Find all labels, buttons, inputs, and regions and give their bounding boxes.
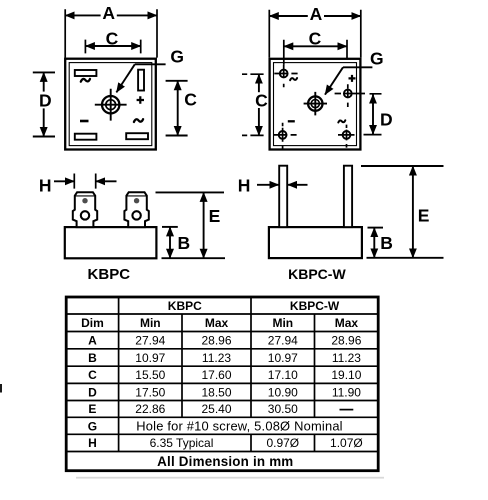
svg-text:A: A — [102, 3, 115, 23]
dimension C KBPC-W top — [284, 29, 347, 65]
dimension D KBPC left — [33, 72, 55, 136]
KBPC-W wire lead 2 — [344, 166, 352, 227]
svg-text:D: D — [380, 109, 393, 129]
table frame — [66, 297, 378, 471]
table header row 1 — [168, 299, 340, 313]
svg-text:B: B — [88, 351, 97, 365]
svg-text:H: H — [238, 176, 251, 196]
svg-text:17.60: 17.60 — [201, 368, 231, 382]
dimension E KBPC — [156, 192, 226, 258]
svg-text:27.94: 27.94 — [268, 334, 298, 348]
table row G — [88, 419, 343, 434]
KBPC pad plus top-right — [137, 70, 144, 104]
svg-text:11.90: 11.90 — [332, 385, 361, 399]
svg-text:C: C — [88, 368, 97, 382]
label KBPC — [88, 266, 131, 283]
dimension E KBPC-W — [361, 166, 444, 258]
KBPC-W terminal AC bottom-right — [338, 120, 382, 147]
svg-text:A: A — [88, 334, 97, 348]
svg-text:30.50: 30.50 — [268, 402, 298, 416]
svg-text:11.23: 11.23 — [202, 351, 231, 365]
svg-text:D: D — [39, 90, 52, 110]
svg-text:G: G — [88, 419, 97, 433]
KBPC-W leader G — [325, 48, 384, 94]
left edge artifact — [0, 384, 2, 393]
svg-text:Hole for #10 screw, 5.08Ø Nomi: Hole for #10 screw, 5.08Ø Nominal — [136, 419, 343, 434]
svg-text:G: G — [170, 47, 184, 67]
KBPC pad AC bottom-right — [126, 119, 148, 139]
table row C — [88, 368, 362, 382]
table footer row — [157, 454, 293, 469]
KBPC-W top view outer body — [270, 59, 361, 150]
shadow line below table — [76, 477, 384, 479]
KBPC top view outer body — [65, 59, 156, 150]
table row E — [88, 402, 353, 416]
table row D — [88, 385, 361, 399]
svg-text:KBPC-W: KBPC-W — [290, 299, 340, 313]
svg-text:KBPC: KBPC — [88, 266, 131, 283]
svg-text:18.50: 18.50 — [201, 385, 231, 399]
KBPC pad minus bottom-left — [75, 121, 97, 140]
svg-text:A: A — [310, 4, 323, 24]
svg-text:C: C — [184, 90, 197, 110]
dimension H KBPC-W — [238, 176, 308, 196]
table row A — [88, 334, 362, 348]
table row B — [88, 351, 361, 365]
svg-text:28.96: 28.96 — [201, 334, 231, 348]
svg-text:11.23: 11.23 — [332, 351, 361, 365]
svg-text:C: C — [309, 29, 322, 49]
KBPC faston tab 1 — [73, 192, 97, 227]
svg-text:Max: Max — [205, 316, 229, 330]
svg-text:E: E — [88, 402, 96, 416]
KBPC-W terminal plus right — [335, 75, 382, 107]
svg-text:B: B — [177, 233, 190, 253]
svg-text:27.94: 27.94 — [135, 334, 165, 348]
svg-text:Min: Min — [272, 316, 293, 330]
svg-text:H: H — [88, 436, 97, 450]
table header row 2 — [81, 316, 358, 330]
KBPC mounting hole — [95, 89, 127, 121]
KBPC faston tab 2 — [124, 192, 148, 227]
KBPC leader G — [116, 47, 184, 93]
svg-text:22.86: 22.86 — [135, 402, 165, 416]
svg-text:0.97Ø: 0.97Ø — [266, 436, 299, 450]
svg-text:Dim: Dim — [81, 316, 104, 330]
label KBPC-W — [288, 266, 346, 282]
svg-text:25.40: 25.40 — [201, 402, 231, 416]
KBPC-W terminal minus bottom-left — [274, 121, 297, 148]
dimension B KBPC-W — [368, 228, 393, 258]
svg-text:KBPC-W: KBPC-W — [288, 266, 346, 282]
KBPC pad AC top-left — [75, 70, 97, 82]
KBPC-W mounting hole — [304, 92, 327, 116]
svg-text:B: B — [380, 233, 393, 253]
svg-text:17.50: 17.50 — [135, 385, 165, 399]
svg-text:C: C — [255, 90, 268, 110]
dimension D KBPC-W right — [373, 94, 393, 134]
svg-text:17.10: 17.10 — [268, 368, 298, 382]
dimension B KBPC — [162, 227, 190, 258]
svg-text:10.97: 10.97 — [135, 351, 165, 365]
svg-text:15.50: 15.50 — [135, 368, 165, 382]
svg-text:1.07Ø: 1.07Ø — [330, 436, 363, 450]
dimension H KBPC — [39, 174, 117, 196]
svg-text:E: E — [418, 206, 430, 226]
svg-text:Max: Max — [335, 316, 359, 330]
svg-text:KBPC: KBPC — [168, 299, 202, 313]
svg-text:E: E — [209, 206, 221, 226]
svg-text:10.97: 10.97 — [268, 351, 298, 365]
dimension A KBPC — [65, 3, 157, 58]
KBPC side view body — [65, 227, 157, 258]
svg-text:Min: Min — [140, 316, 161, 330]
svg-text:28.96: 28.96 — [331, 334, 361, 348]
dimension C KBPC right — [166, 81, 198, 136]
table row H — [88, 436, 363, 450]
svg-text:All Dimension in mm: All Dimension in mm — [157, 454, 293, 469]
dimension A KBPC-W — [269, 4, 361, 58]
svg-text:6.35 Typical: 6.35 Typical — [150, 436, 214, 450]
KBPC-W side view body — [269, 227, 362, 258]
svg-text:D: D — [88, 385, 97, 399]
dimension C KBPC top — [85, 28, 140, 53]
table grid lines — [66, 297, 378, 452]
svg-text:H: H — [39, 176, 52, 196]
svg-text:C: C — [106, 28, 119, 48]
dimension C KBPC-W left — [242, 74, 268, 135]
svg-text:19.10: 19.10 — [331, 368, 361, 382]
svg-text:10.90: 10.90 — [268, 385, 298, 399]
KBPC-W terminal AC top-left — [274, 65, 297, 88]
svg-text:G: G — [370, 48, 384, 68]
KBPC-W wire lead 1 — [279, 166, 287, 227]
